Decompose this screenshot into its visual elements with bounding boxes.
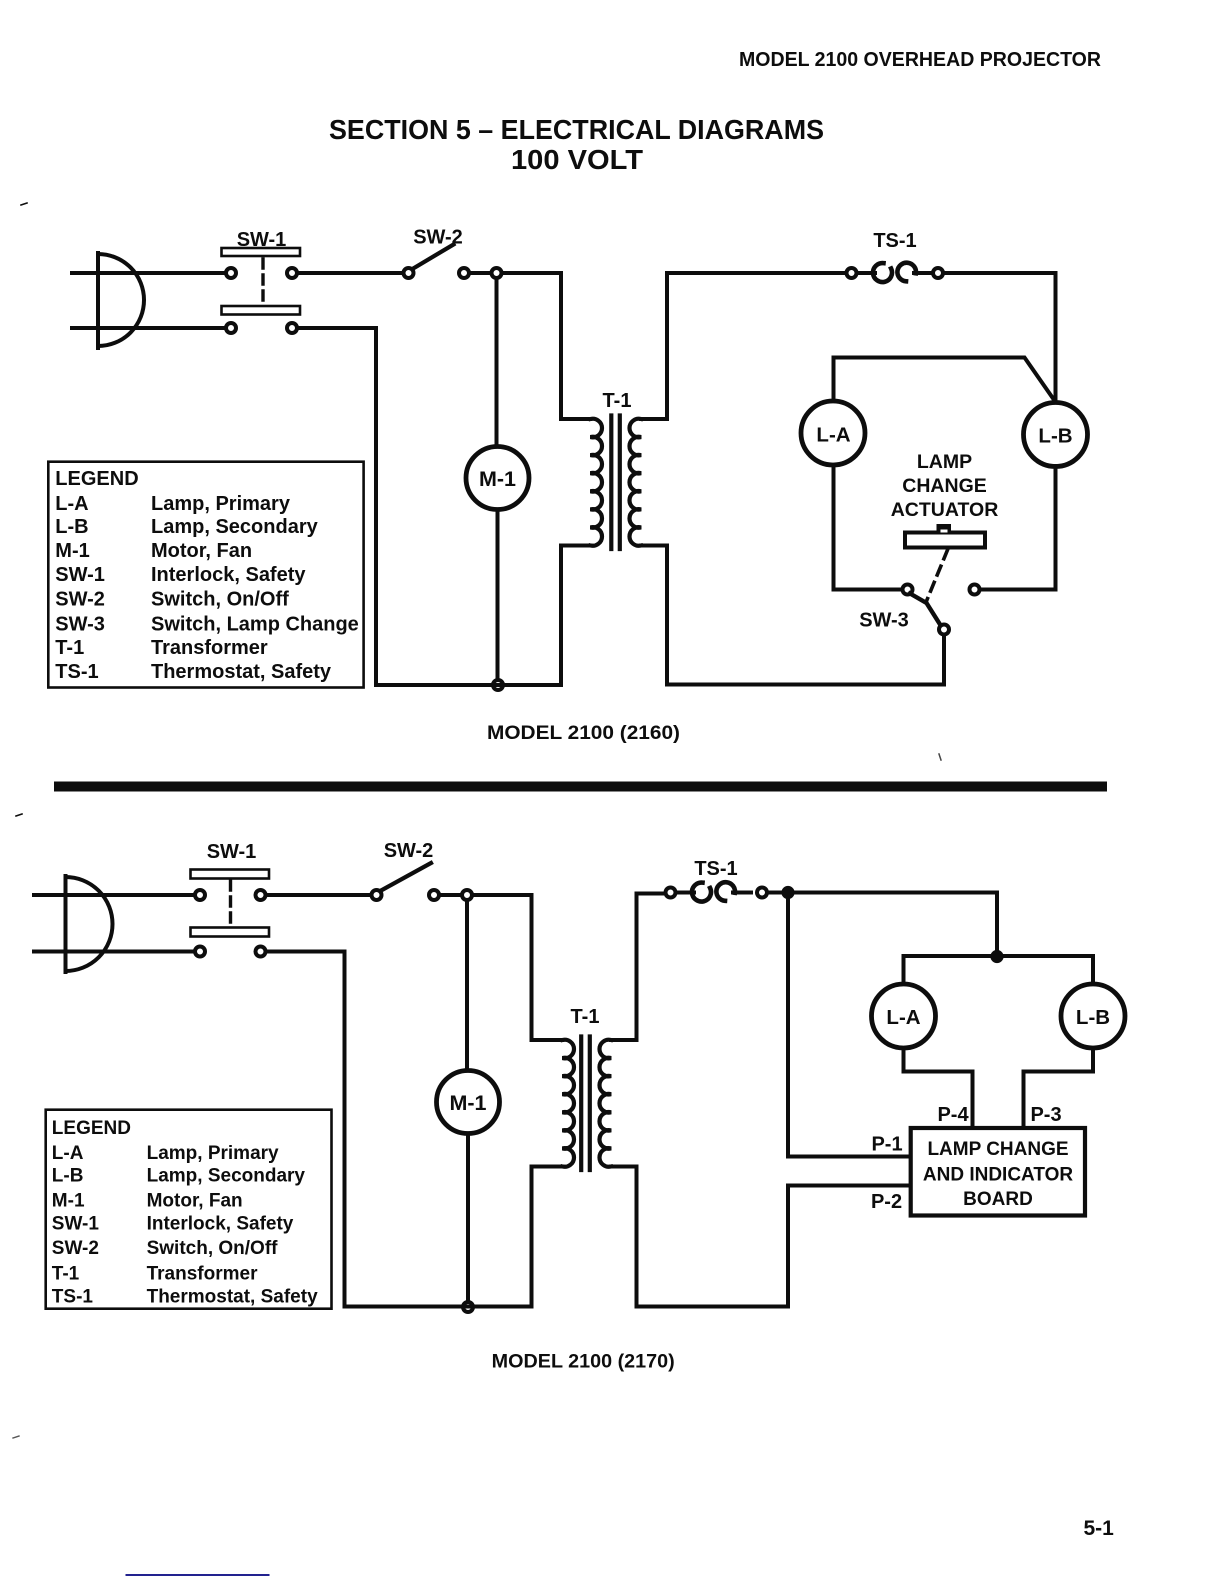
svg-text:100 VOLT: 100 VOLT bbox=[511, 144, 643, 175]
svg-text:MODEL 2100 (2170): MODEL 2100 (2170) bbox=[492, 1352, 675, 1373]
svg-text:SW-1: SW-1 bbox=[55, 564, 105, 586]
svg-text:SW-2: SW-2 bbox=[52, 1238, 99, 1259]
scan speck near caption bbox=[939, 754, 941, 760]
wire: SW-1 bottom to primary bottom rail bbox=[299, 328, 591, 685]
node: bottom rail terminal (2170) bbox=[463, 1302, 473, 1312]
svg-text:T-1: T-1 bbox=[52, 1264, 80, 1285]
svg-text:L-A: L-A bbox=[816, 424, 850, 447]
svg-text:Transformer: Transformer bbox=[147, 1264, 258, 1285]
svg-text:L-B: L-B bbox=[52, 1166, 84, 1187]
wire: SW-3 right to L-B bottom bbox=[981, 466, 1056, 590]
svg-text:P-3: P-3 bbox=[1030, 1104, 1061, 1126]
motor M-1 bbox=[466, 447, 529, 510]
wire: secondary top to TS-1 bbox=[641, 273, 846, 419]
transformer T-1 primary winding bbox=[591, 419, 603, 546]
svg-text:M-1: M-1 bbox=[449, 1091, 486, 1115]
svg-text:SW-3: SW-3 bbox=[859, 610, 909, 632]
node: junction dot after TS-1 bbox=[781, 886, 794, 899]
svg-text:L-B: L-B bbox=[1038, 425, 1072, 448]
legend box (2160) bbox=[48, 462, 363, 688]
switch SW-2 (on/off) bbox=[404, 245, 470, 279]
svg-text:SW-1: SW-1 bbox=[52, 1213, 100, 1234]
svg-text:Motor, Fan: Motor, Fan bbox=[147, 1191, 243, 1212]
svg-text:Interlock, Safety: Interlock, Safety bbox=[151, 564, 306, 586]
svg-text:M-1: M-1 bbox=[479, 467, 516, 491]
svg-text:TS-1: TS-1 bbox=[52, 1286, 94, 1307]
svg-text:T-1: T-1 bbox=[55, 637, 84, 659]
wire: P-1 from junction bbox=[788, 898, 912, 1157]
svg-text:Lamp, Secondary: Lamp, Secondary bbox=[147, 1166, 306, 1187]
label lamp change actuator bbox=[891, 451, 999, 521]
svg-text:LAMP: LAMP bbox=[917, 451, 972, 473]
wire: plug bottom lead to SW-1 bbox=[72, 326, 226, 330]
lamp change actuator bbox=[905, 524, 985, 601]
svg-text:SW-2: SW-2 bbox=[384, 840, 434, 862]
svg-text:Interlock, Safety: Interlock, Safety bbox=[147, 1213, 294, 1234]
wire: plug bottom lead to SW-1 (2170) bbox=[34, 950, 195, 954]
svg-text:5-1: 5-1 bbox=[1084, 1517, 1115, 1540]
wire: L-A bottom to SW-3 bbox=[834, 465, 902, 590]
lamp L-B bbox=[1024, 403, 1088, 467]
transformer T-1 secondary winding (2170) bbox=[599, 1040, 611, 1167]
wire: plug top lead to SW-1 (2170) bbox=[34, 893, 195, 897]
node: bottom rail terminal bbox=[493, 680, 503, 690]
lamp L-A bbox=[801, 401, 865, 465]
transformer T-1 core (2170) bbox=[581, 1037, 590, 1171]
wire: TS-1 to lamp branch vertical (2170) bbox=[768, 893, 997, 957]
svg-text:MODEL 2100 (2160): MODEL 2100 (2160) bbox=[487, 723, 680, 744]
svg-text:T-1: T-1 bbox=[603, 390, 632, 412]
svg-text:SW-1: SW-1 bbox=[237, 229, 287, 251]
divider bar bbox=[54, 782, 1107, 792]
wire: L-A to P-4 bbox=[904, 1048, 973, 1126]
svg-text:BOARD: BOARD bbox=[963, 1189, 1033, 1210]
interlock switch SW-1 bbox=[222, 248, 301, 333]
wire: secondary bottom rail to P-2 (2170) bbox=[611, 1167, 912, 1307]
svg-text:LEGEND: LEGEND bbox=[52, 1118, 131, 1139]
svg-text:L-B: L-B bbox=[55, 516, 88, 538]
switch SW-3 (lamp change) bbox=[903, 585, 980, 635]
svg-text:Thermostat, Safety: Thermostat, Safety bbox=[151, 661, 332, 683]
AC plug (line cord) bbox=[98, 253, 144, 348]
svg-text:M-1: M-1 bbox=[55, 540, 89, 562]
svg-text:L-A: L-A bbox=[55, 493, 88, 515]
svg-text:TS-1: TS-1 bbox=[873, 230, 916, 252]
wire: SW-1 bottom to primary bottom rail (2170) bbox=[268, 952, 563, 1307]
svg-text:L-A: L-A bbox=[886, 1006, 920, 1029]
lamp change and indicator board bbox=[911, 1128, 1085, 1216]
svg-text:L-B: L-B bbox=[1076, 1006, 1110, 1029]
scan speck mid left bbox=[16, 814, 22, 816]
svg-text:TS-1: TS-1 bbox=[55, 661, 98, 683]
wire: M-1 down to bottom rail (2170) bbox=[466, 1134, 470, 1307]
node: M-1 tap junction bbox=[492, 268, 502, 278]
interlock switch SW-1 (2170) bbox=[191, 870, 270, 957]
svg-text:Switch, On/Off: Switch, On/Off bbox=[147, 1238, 279, 1259]
switch SW-2 (2170) bbox=[372, 863, 440, 900]
svg-text:TS-1: TS-1 bbox=[694, 858, 737, 880]
wire: L-B to P-3 bbox=[1024, 1048, 1094, 1126]
thermostat TS-1 bbox=[847, 263, 944, 282]
svg-text:P-4: P-4 bbox=[937, 1104, 969, 1126]
node: junction dot at lamp branch bbox=[990, 950, 1003, 963]
lamp L-B (2170) bbox=[1061, 984, 1125, 1048]
svg-text:LEGEND: LEGEND bbox=[55, 468, 138, 490]
lamp L-A (2170) bbox=[872, 984, 936, 1048]
svg-text:Lamp, Secondary: Lamp, Secondary bbox=[151, 516, 319, 538]
legend box (2170) bbox=[46, 1110, 332, 1309]
wire: secondary bottom rail bbox=[641, 546, 944, 685]
svg-text:Switch, Lamp Change: Switch, Lamp Change bbox=[151, 614, 359, 636]
svg-text:SW-1: SW-1 bbox=[207, 841, 257, 863]
wire: SW-1 to SW-2 (2170) bbox=[268, 893, 371, 897]
svg-text:SECTION 5 – ELECTRICAL DIAGRAM: SECTION 5 – ELECTRICAL DIAGRAMS bbox=[329, 114, 824, 145]
svg-text:SW-2: SW-2 bbox=[413, 227, 463, 249]
svg-text:MODEL 2100 OVERHEAD PROJECTOR: MODEL 2100 OVERHEAD PROJECTOR bbox=[739, 49, 1102, 71]
svg-text:Motor, Fan: Motor, Fan bbox=[151, 540, 252, 562]
svg-text:Lamp, Primary: Lamp, Primary bbox=[151, 493, 291, 515]
wire: SW-2 to T-1 primary top bbox=[471, 273, 591, 419]
wire: plug top lead to SW-1 bbox=[72, 271, 226, 275]
motor M-1 (2170) bbox=[437, 1071, 500, 1134]
wire: M-1 down to bottom rail bbox=[496, 510, 500, 685]
scan speck lower left bbox=[13, 1436, 19, 1438]
svg-text:Lamp, Primary: Lamp, Primary bbox=[147, 1143, 279, 1164]
wire: SW-1 to SW-2 bbox=[299, 271, 402, 275]
thermostat TS-1 (2170) bbox=[666, 882, 768, 901]
wire: junction down to M-1 (2170) bbox=[465, 901, 469, 1071]
wire: junction down to M-1 bbox=[495, 279, 499, 447]
wire: TS-1 to L-B top bbox=[944, 273, 1056, 402]
svg-text:L-A: L-A bbox=[52, 1143, 84, 1164]
svg-text:CHANGE: CHANGE bbox=[902, 475, 987, 497]
wire: lamp branch top (L-A top, horizontal, diagonal to L-B) bbox=[834, 358, 1056, 403]
svg-text:Switch, On/Off: Switch, On/Off bbox=[151, 589, 289, 611]
scan speck top left bbox=[21, 203, 27, 205]
svg-text:SW-2: SW-2 bbox=[55, 589, 105, 611]
svg-text:P-2: P-2 bbox=[871, 1191, 902, 1213]
svg-text:M-1: M-1 bbox=[52, 1191, 85, 1212]
wire: lamp branch horizontal (2170) bbox=[904, 956, 1094, 984]
svg-text:Thermostat, Safety: Thermostat, Safety bbox=[147, 1286, 318, 1307]
transformer T-1 primary winding (2170) bbox=[563, 1040, 575, 1167]
wire: SW-2 to T-1 primary top (2170) bbox=[441, 895, 563, 1040]
svg-text:Transformer: Transformer bbox=[151, 637, 268, 659]
svg-text:SW-3: SW-3 bbox=[55, 614, 105, 636]
wire: SW-3 bottom to rail bbox=[942, 635, 946, 685]
transformer T-1 core bbox=[611, 416, 620, 550]
wire: secondary top to TS-1 (2170) bbox=[611, 894, 664, 1041]
svg-text:AND INDICATOR: AND INDICATOR bbox=[923, 1165, 1074, 1186]
AC plug (line cord) 2170 bbox=[66, 876, 113, 972]
svg-text:T-1: T-1 bbox=[571, 1006, 600, 1028]
svg-text:P-1: P-1 bbox=[871, 1134, 902, 1156]
transformer T-1 secondary winding bbox=[629, 419, 641, 546]
node: M-1 tap junction (2170) bbox=[462, 890, 472, 900]
decorative blue rule bbox=[127, 1574, 269, 1576]
svg-text:LAMP CHANGE: LAMP CHANGE bbox=[927, 1139, 1068, 1160]
svg-text:ACTUATOR: ACTUATOR bbox=[891, 499, 999, 521]
